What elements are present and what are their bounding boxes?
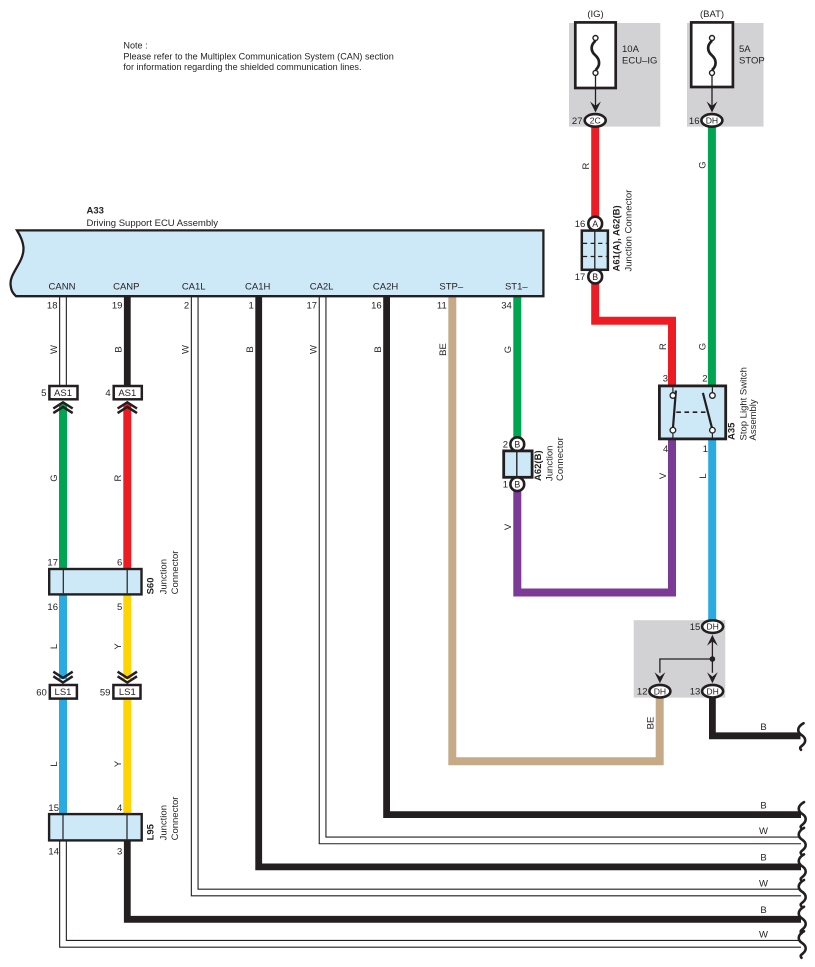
svg-text:12: 12 [637,687,648,698]
wire V from A62(B) pin 1 to stop light switch pin 4 [517,438,672,593]
svg-text:W: W [49,345,60,354]
ECU A33 Driving Support ECU Assembly box [11,206,544,297]
connector AS1 (CANN branch) [41,386,77,399]
svg-text:19: 19 [112,301,123,312]
arrow into terminal 15 DH [707,635,718,646]
connector AS1 (CANP branch) [105,386,141,399]
wire G from ECU pin 34 (ST1-) to A62(B) pin 2 [513,296,521,438]
svg-text:2: 2 [503,440,508,451]
wire G from terminal 16 DH to stop light switch pin 2 [708,127,716,388]
svg-text:L: L [49,644,60,649]
svg-text:2: 2 [184,301,189,312]
svg-text:Connector: Connector [170,551,181,595]
arrow into terminal 27 2C [590,102,601,113]
svg-text:B: B [373,346,384,352]
svg-text:59: 59 [100,687,111,698]
svg-text:for information regarding the: for information regarding the shielded c… [123,62,361,72]
svg-text:B: B [245,346,256,352]
svg-text:6: 6 [117,558,122,569]
svg-text:DH: DH [706,116,718,126]
svg-text:BE: BE [646,717,657,730]
svg-text:27: 27 [572,116,583,127]
shaded block for DH connector terminals [634,620,726,697]
svg-text:B: B [514,439,520,449]
svg-text:G: G [503,346,514,353]
svg-text:4: 4 [663,444,668,455]
svg-text:Junction: Junction [544,446,555,481]
svg-text:Connector: Connector [555,437,566,481]
svg-text:L: L [698,473,709,478]
note text block [123,41,393,73]
svg-text:G: G [698,161,709,168]
svg-text:CA2L: CA2L [310,282,334,293]
wire colour labels L and Y between LS1 and L95 [49,760,124,767]
junction connector pin 2 (B) of A62(B) [503,437,524,451]
wire-break squiggle at end of W wire from CA2L [799,828,806,855]
svg-text:STP–: STP– [439,282,463,293]
junction connector pin 16 (A) of A61(A) [575,217,602,231]
wire L from LS1 to L95 pin 15 [59,698,67,815]
arrow into terminal 12 DH [655,672,666,683]
svg-text:AS1: AS1 [118,388,136,399]
svg-text:(IG): (IG) [587,9,603,20]
svg-text:B: B [114,346,125,352]
wire BE from ECU pin 11 (STP-) to terminal 12 DH [452,296,659,761]
svg-text:5A: 5A [739,44,751,55]
wire B from terminal 13 DH to right [712,696,800,736]
svg-text:B: B [514,479,520,489]
svg-text:A35: A35 [727,422,738,440]
svg-text:G: G [49,474,60,481]
wire B from ECU pin 16 (CA2H) to right [387,296,801,814]
svg-text:10A: 10A [622,44,640,55]
wire colour labels L and Y between S60 and LS1 [49,643,124,650]
mating chevrons of connector LS1 (CANN) [53,672,72,683]
wire W from ECU pin 18 (CANN) to AS1 (white, shielded pair outline) [59,296,67,387]
junction connector L95 [48,797,181,858]
svg-text:BE: BE [438,343,449,356]
wire B from ECU pin 19 (CANP) to AS1 [124,296,131,387]
connector LS1 (CANN branch) [36,685,77,699]
svg-text:V: V [503,523,514,530]
svg-text:R: R [581,162,592,169]
wire-break squiggle at end of B wire from CA1H [799,854,806,881]
wire B from L95 pin 3 to right [127,840,801,920]
wire G from AS1 to S60 pin 17 [59,404,67,571]
wire R from AS1 to S60 pin 6 [123,404,131,571]
wire W from ECU pin 17 (CA2L) to right (white, shielded pair outline) [323,296,801,840]
junction connector A61(A), A62(B) body [582,190,635,272]
svg-text:Y: Y [113,760,124,767]
svg-text:16: 16 [47,602,58,613]
svg-text:(BAT): (BAT) [700,9,724,20]
svg-text:W: W [759,930,768,941]
arrow into terminal 13 DH [707,672,718,683]
mating chevrons of connector AS1 (CANP) [118,402,137,413]
svg-text:W: W [181,345,192,354]
junction connector pin 1 (B) of A62(B) [503,477,524,491]
svg-text:L: L [49,761,60,766]
ECU pin numbers [47,301,512,312]
svg-text:B: B [760,853,766,864]
mating chevrons of connector AS1 (CANN) [53,402,72,413]
svg-text:Y: Y [113,643,124,650]
svg-text:G: G [698,343,709,350]
wire-break squiggle at end of B wire from 13 DH [798,723,805,750]
wire colour labels G and R between AS1 and S60 [49,474,124,481]
fuse 10A ECU-IG [575,9,657,109]
connector LS1 (CANP branch) [100,685,141,699]
svg-text:Driving Support ECU Assembly: Driving Support ECU Assembly [87,218,219,229]
wire Y from LS1 to L95 pin 4 [123,698,131,815]
power source shaded block (BAT) [687,23,764,127]
svg-text:DH: DH [654,686,666,696]
svg-text:15: 15 [48,803,59,814]
svg-text:AS1: AS1 [54,388,72,399]
svg-text:CA1H: CA1H [245,282,270,293]
svg-text:5: 5 [117,602,122,613]
svg-text:1: 1 [503,480,508,491]
labels for bottom horizontal wires [759,800,768,940]
svg-text:B: B [760,905,766,916]
connector terminal 13 DH (terminal 13) [690,685,723,698]
wire W from ECU pin 2 (CA1L) to right (white, shielded pair outline) [195,296,801,892]
wire R from A61 pin B to stop light switch pin 3 [595,283,672,387]
svg-text:LS1: LS1 [55,687,72,698]
wire L from stop light switch pin 1 to terminal 15 DH [708,438,716,621]
wire L from S60 pin 16 to LS1 [59,594,67,680]
wire colour labels below ECU [49,343,514,356]
svg-text:17: 17 [47,558,58,569]
svg-text:V: V [658,472,669,479]
svg-text:B: B [760,722,766,733]
power source shaded block (IG) [569,23,660,127]
svg-text:ST1–: ST1– [505,282,528,293]
wire-break squiggle at end of B wire from L95 pin 3 [799,907,806,934]
fuse 5A STOP [691,9,765,109]
wire-break squiggle at end of W wire from CA1L [799,880,806,907]
svg-text:R: R [113,474,124,481]
svg-text:W: W [759,878,768,889]
stop light switch pin numbers [663,374,708,456]
svg-text:1: 1 [703,444,708,455]
connector terminal 15 DH (terminal 15) [690,620,723,633]
svg-text:DH: DH [706,622,718,632]
svg-text:3: 3 [663,374,668,385]
svg-text:11: 11 [437,301,447,312]
svg-text:Assembly: Assembly [748,399,759,440]
svg-text:60: 60 [36,687,47,698]
svg-text:CA1L: CA1L [182,282,206,293]
svg-text:A: A [592,219,598,229]
svg-text:17: 17 [575,272,586,283]
junction connector A62(B) body [504,437,566,481]
svg-text:A62(B): A62(B) [533,450,544,481]
svg-text:16: 16 [689,116,700,127]
svg-text:4: 4 [105,388,110,399]
svg-text:13: 13 [690,687,701,698]
svg-text:L95: L95 [146,823,157,840]
arrow into terminal 16 DH [707,102,718,113]
junction connector S60 [47,551,181,613]
svg-text:15: 15 [690,622,701,633]
wire B from ECU pin 1 (CA1H) to right [259,296,801,867]
svg-text:Junction: Junction [159,805,170,840]
svg-text:Junction: Junction [159,559,170,594]
stop light switch A35 body [659,367,759,440]
wire-break squiggle at end of W wire from L95 pin 14 [799,931,806,958]
svg-text:1: 1 [249,301,254,312]
svg-text:CANN: CANN [49,282,76,293]
svg-text:B: B [760,800,766,811]
svg-text:2: 2 [702,374,707,385]
svg-text:STOP: STOP [739,56,765,67]
wire Y from S60 pin 5 to LS1 [123,594,131,680]
svg-text:A61(A), A62(B): A61(A), A62(B) [612,205,623,271]
svg-text:W: W [759,826,768,837]
connector terminal 16 DH (STOP fuse output) [689,114,722,127]
svg-text:17: 17 [307,301,318,312]
mating chevrons of connector LS1 (CANP) [118,672,137,683]
svg-text:4: 4 [117,803,122,814]
svg-text:34: 34 [501,301,512,312]
svg-text:DH: DH [706,686,718,696]
wire W from L95 pin 14 to right (white, shielded pair outline) [63,840,801,944]
svg-text:16: 16 [575,219,586,230]
svg-text:3: 3 [117,847,122,858]
connector terminal 12 DH (terminal 12) [637,685,670,698]
svg-text:B: B [592,272,598,282]
svg-text:16: 16 [371,301,382,312]
svg-text:Connector: Connector [170,797,181,841]
svg-text:14: 14 [48,847,59,858]
svg-text:Note :: Note : [123,41,147,51]
junction connector pin 17 (B) of A61(A) [575,270,602,284]
svg-text:ECU–IG: ECU–IG [622,56,657,67]
svg-text:Please refer to the Multiplex: Please refer to the Multiplex Communicat… [123,51,393,61]
svg-text:2C: 2C [590,116,601,126]
junction node in DH block [710,656,716,662]
svg-text:CANP: CANP [113,282,139,293]
svg-text:LS1: LS1 [119,687,136,698]
internal link wires in DH block [660,641,713,673]
svg-text:A33: A33 [87,206,104,217]
svg-text:5: 5 [41,388,46,399]
svg-text:R: R [658,343,669,350]
svg-text:S60: S60 [146,577,157,594]
svg-text:W: W [308,345,319,354]
svg-text:CA2H: CA2H [373,282,398,293]
wire R from terminal 27 2C to A61 pin A [591,127,599,218]
svg-text:Junction Connector: Junction Connector [624,190,635,272]
connector terminal 27 2C (ECU-IG fuse output) [572,114,606,127]
svg-text:18: 18 [47,301,58,312]
wire-break squiggle at end of B wire from CA2H [799,802,806,829]
